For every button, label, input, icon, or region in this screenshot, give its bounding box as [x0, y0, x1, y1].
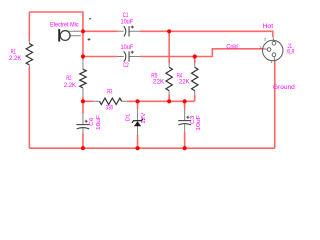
svg-text:Electret Mic: Electret Mic — [50, 22, 79, 29]
svg-text:R2: R2 — [66, 76, 72, 82]
svg-text:R4: R4 — [177, 73, 183, 79]
svg-text:10uF: 10uF — [196, 114, 202, 131]
svg-text:R1: R1 — [11, 49, 17, 55]
svg-text:C2: C2 — [123, 63, 129, 69]
svg-text:2.2K: 2.2K — [9, 56, 21, 62]
svg-text:C1: C1 — [123, 13, 129, 19]
svg-text:22K: 22K — [153, 80, 164, 86]
svg-text:10uF: 10uF — [120, 19, 133, 25]
svg-text:Hot: Hot — [262, 24, 273, 30]
svg-text:330: 330 — [106, 106, 114, 112]
svg-text:XLR: XLR — [286, 50, 295, 56]
svg-text:R3: R3 — [107, 89, 113, 95]
svg-text:Cold: Cold — [226, 44, 237, 50]
svg-text:12V: 12V — [141, 113, 147, 124]
svg-text:C6: C6 — [89, 118, 95, 126]
svg-text:Ground: Ground — [273, 84, 295, 91]
svg-text:D1: D1 — [126, 114, 132, 121]
svg-text:22K: 22K — [179, 80, 190, 86]
svg-text:R5: R5 — [151, 73, 158, 79]
svg-text:2.2K: 2.2K — [64, 83, 76, 89]
svg-text:10uF: 10uF — [96, 115, 102, 130]
svg-text:10uF: 10uF — [121, 45, 134, 51]
